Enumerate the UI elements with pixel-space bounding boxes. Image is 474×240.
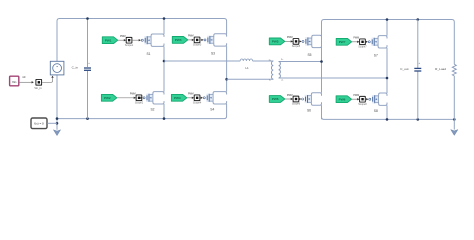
svg-text:PWM: PWM: [188, 36, 194, 38]
svg-text:S6: S6: [307, 109, 311, 113]
svg-text:S3: S3: [211, 52, 215, 56]
svg-text:C_out: C_out: [400, 67, 408, 71]
svg-text:Scope2: Scope2: [135, 101, 144, 104]
svg-text:Scope3: Scope3: [193, 43, 202, 46]
svg-text:S1: S1: [146, 52, 150, 56]
svg-text:PWM: PWM: [130, 94, 136, 96]
svg-text:Scope1: Scope1: [125, 44, 134, 47]
svg-text:PW5: PW5: [272, 40, 279, 44]
svg-text:PW4: PW4: [174, 96, 181, 100]
svg-text:PW6: PW6: [272, 97, 279, 101]
svg-text:PWM: PWM: [287, 95, 293, 97]
svg-text:PW2: PW2: [104, 96, 111, 100]
svg-text:PWM: PWM: [353, 38, 359, 40]
svg-text:PW3: PW3: [175, 38, 182, 42]
svg-text:S7: S7: [374, 54, 378, 58]
svg-text:PWM: PWM: [353, 95, 359, 97]
svg-text:S5: S5: [307, 53, 311, 57]
svg-text:1-: 1-: [269, 80, 271, 82]
svg-text:S8: S8: [374, 109, 378, 113]
svg-text:S4: S4: [210, 107, 214, 111]
svg-text:PW8: PW8: [339, 97, 346, 101]
svg-text:PW7: PW7: [339, 40, 346, 44]
svg-text:f(x) = 0: f(x) = 0: [34, 121, 44, 125]
svg-text:mF: mF: [22, 76, 26, 79]
svg-text:PWM: PWM: [287, 37, 293, 39]
svg-text:PWM: PWM: [188, 94, 194, 96]
svg-text:Vin_in: Vin_in: [34, 86, 42, 90]
svg-text:R_Load: R_Load: [435, 67, 446, 71]
svg-text:Scope5: Scope5: [292, 45, 301, 48]
svg-text:2-: 2-: [281, 79, 283, 81]
svg-text:L1: L1: [245, 66, 249, 70]
svg-text:Scope4: Scope4: [193, 101, 202, 104]
svg-text:Scope6: Scope6: [292, 103, 301, 106]
svg-text:C_in: C_in: [72, 65, 79, 69]
svg-text:PW1: PW1: [105, 38, 112, 42]
svg-text:PWM: PWM: [120, 36, 126, 38]
svg-text:Scope7: Scope7: [358, 45, 367, 48]
svg-text:Scope8: Scope8: [358, 103, 367, 106]
svg-text:Vin: Vin: [12, 80, 17, 84]
svg-text:S2: S2: [150, 107, 154, 111]
